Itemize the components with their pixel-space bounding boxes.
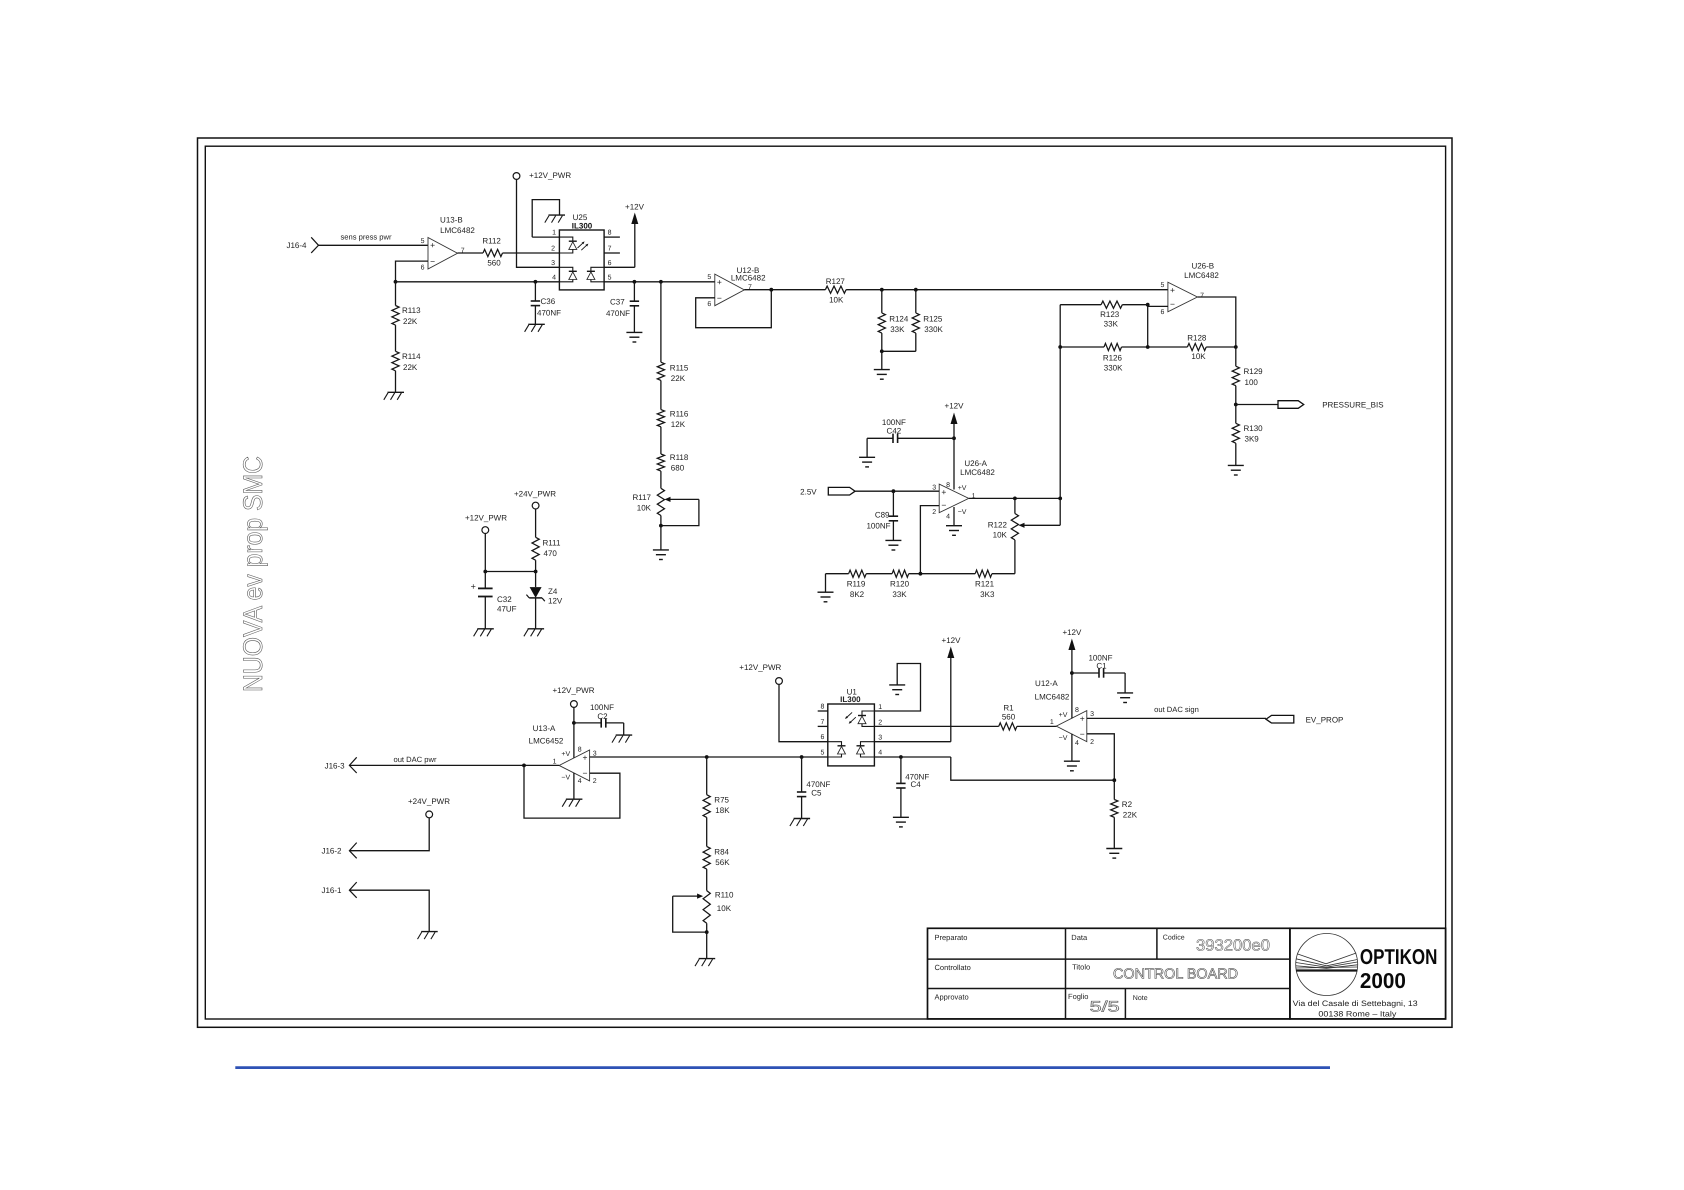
svg-text:7: 7 xyxy=(608,246,612,253)
svg-text:8: 8 xyxy=(820,704,824,711)
svg-text:R110: R110 xyxy=(715,891,734,900)
svg-text:CONTROL BOARD: CONTROL BOARD xyxy=(1113,967,1238,983)
ground earth below C42 xyxy=(859,457,875,467)
title block label Foglio xyxy=(1068,992,1088,1001)
svg-text:10K: 10K xyxy=(717,904,732,913)
svg-text:U26-A: U26-A xyxy=(964,459,987,468)
svg-text:IL300: IL300 xyxy=(840,695,861,704)
svg-text:1: 1 xyxy=(878,704,882,711)
svg-text:6: 6 xyxy=(707,301,711,308)
svg-text:22K: 22K xyxy=(403,363,418,372)
svg-text:IL300: IL300 xyxy=(572,221,593,230)
wire R117 to ground xyxy=(660,526,662,550)
svg-text:R119: R119 xyxy=(847,580,866,589)
title block outer rect xyxy=(928,928,1290,1019)
svg-text:2000: 2000 xyxy=(1360,969,1406,993)
capacitor C36 xyxy=(531,282,561,325)
svg-text:680: 680 xyxy=(671,464,685,473)
node C42 junction xyxy=(952,436,956,440)
capacitor C2 xyxy=(574,703,624,735)
svg-text:Preparato: Preparato xyxy=(935,933,968,942)
svg-text:J16-3: J16-3 xyxy=(325,761,346,770)
wire U13-B output xyxy=(458,252,484,254)
ground chassis below C2 xyxy=(612,735,632,743)
svg-text:1: 1 xyxy=(972,493,976,500)
wire U12-B output xyxy=(744,289,825,291)
svg-text:R115: R115 xyxy=(670,364,689,373)
title block label Titolo xyxy=(1072,963,1090,972)
svg-text:C32: C32 xyxy=(497,595,512,604)
title block label Data xyxy=(1071,933,1088,942)
svg-text:Controllato: Controllato xyxy=(935,963,971,972)
ground earth below C4 xyxy=(893,817,909,827)
svg-text:3: 3 xyxy=(551,260,555,267)
svg-text:Data: Data xyxy=(1071,933,1088,942)
title block foglio 5/5 xyxy=(1090,999,1120,1016)
logo text 2000 xyxy=(1360,969,1406,993)
op-amp U13-A xyxy=(529,724,597,785)
ground earth below R117 xyxy=(653,550,669,560)
wire U12-B feedback xyxy=(696,290,772,328)
wire U26-A minus input xyxy=(920,506,939,574)
resistor R111 xyxy=(532,537,561,571)
node R122 top junction xyxy=(1013,497,1017,501)
resistor R130 xyxy=(1232,405,1263,466)
resistor R115 xyxy=(657,282,689,410)
op-amp U12-A xyxy=(1035,679,1094,747)
node C37 junction xyxy=(633,280,637,284)
svg-text:−V: −V xyxy=(1059,735,1068,742)
U13-A minus V ground xyxy=(562,773,582,807)
svg-text:−V: −V xyxy=(561,775,570,782)
ground chassis below C32 xyxy=(474,629,494,637)
power +24V_PWR lower xyxy=(349,797,450,851)
svg-text:+24V_PWR: +24V_PWR xyxy=(514,490,556,499)
op-amp U12-B xyxy=(707,266,766,308)
svg-text:C37: C37 xyxy=(610,297,625,306)
svg-text:8: 8 xyxy=(578,747,582,754)
svg-text:−: − xyxy=(941,500,946,510)
U25 pin3 label xyxy=(551,260,555,267)
svg-text:out DAC pwr: out DAC pwr xyxy=(393,755,437,764)
svg-text:2: 2 xyxy=(593,778,597,785)
title block row dividers xyxy=(928,959,1290,988)
svg-text:R113: R113 xyxy=(402,306,421,315)
svg-text:Via del Casale di Settebagni,: Via del Casale di Settebagni, 13 xyxy=(1293,999,1418,1008)
svg-text:5: 5 xyxy=(608,274,612,281)
svg-text:3K9: 3K9 xyxy=(1245,435,1260,444)
svg-text:12V: 12V xyxy=(548,597,563,606)
svg-text:C1: C1 xyxy=(1096,662,1107,671)
wire vertical inner feedback xyxy=(1146,303,1150,349)
ground earth below R2 xyxy=(1106,849,1122,859)
title block column divider main xyxy=(1065,928,1067,1019)
node R124 junction xyxy=(880,288,884,292)
svg-text:5: 5 xyxy=(820,750,824,757)
net label out DAC pwr xyxy=(393,755,437,764)
logo address line2 xyxy=(1318,1010,1396,1019)
svg-text:33K: 33K xyxy=(890,325,905,334)
U1 pin1 label xyxy=(878,704,882,711)
wire +12V_PWR to U25 pin3 xyxy=(517,180,560,268)
svg-text:+12V: +12V xyxy=(942,636,962,645)
svg-text:560: 560 xyxy=(1002,713,1016,722)
capacitor C89 xyxy=(866,491,898,540)
svg-text:10K: 10K xyxy=(637,503,652,512)
svg-text:2: 2 xyxy=(1090,739,1094,746)
svg-text:R122: R122 xyxy=(988,520,1008,529)
optocoupler U25 IL300 body xyxy=(559,213,604,290)
resistor R128 xyxy=(1187,334,1236,362)
node C36 junction xyxy=(534,280,538,284)
svg-text:3K3: 3K3 xyxy=(980,590,995,599)
wire U12-A minus stub xyxy=(1087,734,1115,780)
potentiometer R122 xyxy=(988,498,1019,573)
wire R110 to ground xyxy=(706,932,708,959)
U1 pin4 label xyxy=(878,750,882,757)
svg-text:393200e0: 393200e0 xyxy=(1196,938,1270,955)
svg-text:10K: 10K xyxy=(1191,352,1206,361)
capacitor C32 electrolytic xyxy=(471,572,517,629)
svg-text:1: 1 xyxy=(1050,719,1054,726)
capacitor C1 xyxy=(1072,654,1125,693)
svg-text:out DAC sign: out DAC sign xyxy=(1154,705,1199,714)
svg-text:LMC6482: LMC6482 xyxy=(960,468,995,477)
resistor R1 xyxy=(999,703,1017,730)
capacitor C5 xyxy=(797,757,831,819)
svg-text:10K: 10K xyxy=(829,295,844,304)
svg-text:R123: R123 xyxy=(1100,310,1120,319)
port tag PRESSURE_BIS xyxy=(1278,400,1384,409)
node R75 junction xyxy=(705,755,709,759)
svg-text:+: + xyxy=(1170,285,1175,295)
svg-text:NUOVA ev prop SMC: NUOVA ev prop SMC xyxy=(238,456,268,692)
U25 internal photodiode pins6-5 xyxy=(587,267,604,282)
power +12V arrow at U26-A xyxy=(945,402,965,490)
svg-text:Codice: Codice xyxy=(1163,933,1185,941)
svg-text:−: − xyxy=(430,256,435,266)
U26-A minus V ground xyxy=(946,507,962,535)
U1 internal LED xyxy=(858,711,874,726)
svg-text:R1: R1 xyxy=(1003,703,1014,712)
svg-text:00138 Rome – Italy: 00138 Rome – Italy xyxy=(1318,1010,1396,1019)
svg-text:R130: R130 xyxy=(1244,424,1264,433)
ground chassis C36 xyxy=(525,324,545,332)
svg-text:470NF: 470NF xyxy=(606,309,630,318)
svg-text:Approvato: Approvato xyxy=(935,993,969,1002)
U1 internal photodiode pins6-5 xyxy=(828,742,846,757)
U25 LED light arrows xyxy=(578,241,589,250)
svg-text:U26-B: U26-B xyxy=(1191,261,1214,270)
R122 wiper xyxy=(1019,523,1061,528)
wire R111 to C32 xyxy=(485,571,535,573)
node C5 junction xyxy=(800,755,804,759)
drawing frame inner border xyxy=(205,146,1445,1019)
wire out DAC pwr xyxy=(349,764,559,766)
resistor R119 xyxy=(826,570,867,599)
ground earth left of R119 xyxy=(818,574,834,602)
capacitor C42 xyxy=(867,418,954,457)
node U12-B output junction xyxy=(769,288,773,292)
svg-text:470: 470 xyxy=(544,549,558,558)
svg-text:8: 8 xyxy=(608,230,612,237)
svg-text:4: 4 xyxy=(878,750,882,757)
wire U13-B feedback minus input xyxy=(396,261,429,282)
svg-text:−: − xyxy=(583,768,588,778)
connector J16-3 xyxy=(325,757,357,773)
node R120 junction xyxy=(919,572,923,576)
svg-text:2: 2 xyxy=(932,509,936,516)
svg-text:R129: R129 xyxy=(1244,367,1264,376)
power +12V_PWR top xyxy=(513,171,571,180)
svg-text:4: 4 xyxy=(552,274,556,281)
resistor R124 xyxy=(878,290,909,352)
logo OPTIKON circle xyxy=(1296,934,1358,996)
ground chassis below C5 xyxy=(790,819,810,827)
svg-text:R84: R84 xyxy=(714,847,729,856)
svg-text:7: 7 xyxy=(820,719,824,726)
svg-text:−: − xyxy=(1080,729,1085,739)
svg-text:+: + xyxy=(430,240,435,250)
svg-text:+12V_PWR: +12V_PWR xyxy=(739,663,781,672)
logo book lines xyxy=(1296,953,1358,968)
resistor R84 xyxy=(703,846,730,890)
svg-text:Z4: Z4 xyxy=(548,587,558,596)
node R117 bottom junction xyxy=(659,524,663,528)
optocoupler U1 IL300 body xyxy=(828,687,875,766)
node R125 junction xyxy=(914,288,918,292)
sheet title NUOVA ev prop SMC xyxy=(238,456,268,692)
U1 pin5 label xyxy=(820,750,824,757)
net label out DAC sign xyxy=(1154,705,1199,714)
title block label Codice xyxy=(1163,933,1185,941)
svg-text:LMC6482: LMC6482 xyxy=(731,274,766,283)
power +12V_PWR at U13-A xyxy=(552,686,594,758)
svg-text:EV_PROP: EV_PROP xyxy=(1306,715,1344,724)
U25 pin8 stub xyxy=(604,230,620,238)
svg-text:4: 4 xyxy=(946,514,950,521)
title block codice number 393200e0 xyxy=(1196,938,1270,955)
svg-text:3: 3 xyxy=(1090,711,1094,718)
U1 internal photodiode pins3-4 xyxy=(857,742,875,757)
svg-text:+12V_PWR: +12V_PWR xyxy=(465,514,507,523)
power +12V_PWR at U1 xyxy=(739,663,828,742)
svg-text:R128: R128 xyxy=(1187,334,1207,343)
ground earth below C1 xyxy=(1117,693,1133,703)
svg-text:22K: 22K xyxy=(1123,810,1138,819)
svg-text:U13-B: U13-B xyxy=(440,216,463,225)
potentiometer R110 xyxy=(703,891,734,933)
svg-text:6: 6 xyxy=(608,260,612,267)
svg-text:7: 7 xyxy=(1200,292,1204,299)
title block label Approvato xyxy=(935,993,969,1002)
svg-text:+12V_PWR: +12V_PWR xyxy=(529,171,571,180)
title block label Preparato xyxy=(935,933,968,942)
blue separator line xyxy=(235,1066,1330,1069)
wire sens press pwr J16-4 to U13-B + xyxy=(319,244,429,246)
U1 LED light arrows xyxy=(845,712,856,723)
capacitor C4 xyxy=(896,757,929,817)
wire R124 R125 bottoms xyxy=(880,349,916,369)
wire U13-A plus to U1 pin5 xyxy=(590,756,828,758)
title block title CONTROL BOARD xyxy=(1113,967,1238,983)
svg-text:2.5V: 2.5V xyxy=(800,487,817,496)
wire U26-A output xyxy=(969,497,1060,499)
svg-text:U12-A: U12-A xyxy=(1035,679,1058,688)
svg-text:LMC6482: LMC6482 xyxy=(1184,271,1219,280)
svg-text:8: 8 xyxy=(1075,707,1079,714)
node R2 junction xyxy=(1112,778,1116,782)
resistor R123 xyxy=(1060,301,1148,328)
node R128 junction xyxy=(1234,345,1238,349)
power +12V arrow at U12-A xyxy=(1062,628,1082,718)
wire to PRESSURE_BIS tag xyxy=(1236,404,1278,406)
svg-text:C5: C5 xyxy=(811,788,822,797)
svg-text:6: 6 xyxy=(820,734,824,741)
net label sens press pwr xyxy=(340,232,392,241)
svg-text:+12V: +12V xyxy=(945,402,965,411)
U12-A minus V ground xyxy=(1064,734,1080,771)
svg-text:6: 6 xyxy=(421,264,425,271)
U25 internal LED xyxy=(559,237,576,253)
svg-text:PRESSURE_BIS: PRESSURE_BIS xyxy=(1322,400,1383,409)
wire U26-B output corner xyxy=(1198,297,1236,347)
connector J16-1 xyxy=(321,882,356,898)
op-amp U13-B xyxy=(421,216,476,272)
U1 pin3 label xyxy=(878,735,882,742)
U1 pin2 label xyxy=(878,719,882,726)
wire R112 to U25 pin2 xyxy=(503,252,560,254)
svg-text:3: 3 xyxy=(932,484,936,491)
resistor R75 xyxy=(703,757,730,846)
U25 pin1 loop wire xyxy=(532,200,559,238)
svg-text:−: − xyxy=(1170,299,1175,309)
svg-text:33K: 33K xyxy=(892,590,907,599)
svg-text:6: 6 xyxy=(1160,309,1164,316)
title block label Note xyxy=(1133,995,1148,1002)
node C32 junction xyxy=(483,570,487,574)
svg-text:5/5: 5/5 xyxy=(1090,999,1120,1016)
power +12V arrow at U25 xyxy=(625,203,645,268)
svg-text:sens press pwr: sens press pwr xyxy=(340,232,392,241)
svg-text:J16-4: J16-4 xyxy=(286,241,307,250)
node C89 junction xyxy=(892,489,896,493)
power +12V arrow at U1 pin3 xyxy=(874,636,961,742)
svg-text:+V: +V xyxy=(1059,712,1068,719)
resistor R126 xyxy=(1060,343,1187,372)
svg-text:Note: Note xyxy=(1133,995,1148,1002)
potentiometer R117 xyxy=(632,488,664,525)
svg-text:+: + xyxy=(583,753,588,763)
logo book thick line xyxy=(1296,969,1357,971)
resistor R118 xyxy=(657,453,689,488)
svg-text:U13-A: U13-A xyxy=(533,724,556,733)
U1 pin7 stub xyxy=(818,719,828,727)
U25 pin5 label xyxy=(608,274,612,281)
svg-text:10K: 10K xyxy=(993,530,1008,539)
power +12V_PWR mid-left xyxy=(465,514,507,572)
svg-text:Titolo: Titolo xyxy=(1072,963,1090,972)
wire feedback left vertical xyxy=(1058,305,1062,349)
svg-text:5: 5 xyxy=(707,274,711,281)
svg-text:4: 4 xyxy=(578,778,582,785)
node C2 junction xyxy=(572,721,576,725)
svg-text:R111: R111 xyxy=(543,538,561,547)
connector J16-4 xyxy=(286,237,318,253)
U13-A feedback loop xyxy=(524,765,620,818)
ground earth U1 loop xyxy=(889,685,905,695)
svg-text:J16-1: J16-1 xyxy=(321,886,342,895)
wire U1 pin4 to corner xyxy=(874,757,1114,780)
svg-text:100NF: 100NF xyxy=(590,703,614,712)
ground chassis U25 loop xyxy=(545,215,565,223)
svg-text:47UF: 47UF xyxy=(497,605,517,614)
svg-text:5: 5 xyxy=(1160,282,1164,289)
node output-feedback junction xyxy=(1058,497,1062,501)
ground chassis below R114 xyxy=(384,392,404,400)
svg-text:33K: 33K xyxy=(1104,319,1119,328)
svg-text:J16-2: J16-2 xyxy=(321,847,342,856)
svg-text:8: 8 xyxy=(946,482,950,489)
svg-text:1: 1 xyxy=(553,759,557,766)
wire main bus sens node xyxy=(396,281,715,283)
node bus-left junction xyxy=(394,280,398,284)
R117 wiper loop xyxy=(661,497,699,526)
svg-text:R2: R2 xyxy=(1122,800,1133,809)
U25 pin1 stub xyxy=(532,230,559,238)
svg-text:+12V: +12V xyxy=(1062,628,1082,637)
wire J16-1 to ground xyxy=(349,890,429,931)
title block logo cell xyxy=(1290,928,1446,1019)
resistor R2 xyxy=(1111,780,1138,848)
svg-text:330K: 330K xyxy=(1104,364,1123,373)
power +24V_PWR upper xyxy=(514,490,556,538)
node PRESSURE_BIS junction xyxy=(1234,403,1238,407)
ground chassis below Z4 xyxy=(524,629,544,637)
wire out DAC sign xyxy=(1087,717,1266,719)
svg-text:R125: R125 xyxy=(923,314,943,323)
resistor R112 xyxy=(482,236,502,267)
ground earth C37 xyxy=(626,332,642,342)
op-amp U26-A xyxy=(932,459,995,521)
svg-text:+V: +V xyxy=(958,485,967,492)
title block label Controllato xyxy=(935,963,971,972)
svg-text:+12V: +12V xyxy=(625,203,645,212)
svg-text:C89: C89 xyxy=(875,511,890,520)
svg-text:100NF: 100NF xyxy=(866,522,890,531)
ground earth below R124 xyxy=(874,370,890,380)
svg-text:1: 1 xyxy=(552,230,556,237)
ground chassis J16-1 xyxy=(418,932,438,940)
svg-text:LMC6482: LMC6482 xyxy=(1035,693,1070,702)
svg-text:R116: R116 xyxy=(670,409,689,418)
svg-text:−: − xyxy=(717,293,722,303)
svg-text:+: + xyxy=(471,581,476,591)
svg-text:C2: C2 xyxy=(597,712,608,721)
svg-text:R121: R121 xyxy=(975,580,995,589)
svg-text:3: 3 xyxy=(878,735,882,742)
U25 pin2 label xyxy=(551,246,555,253)
svg-text:+: + xyxy=(1080,713,1085,723)
ground earth below R130 xyxy=(1228,465,1244,475)
svg-text:+V: +V xyxy=(561,751,570,758)
wire feedback vertical x1060 xyxy=(1059,347,1061,525)
capacitor C37 xyxy=(606,282,639,333)
U1 pin8 stub xyxy=(818,704,828,712)
port tag 2.5V xyxy=(800,487,855,496)
svg-text:5: 5 xyxy=(421,238,425,245)
svg-text:12K: 12K xyxy=(671,420,686,429)
